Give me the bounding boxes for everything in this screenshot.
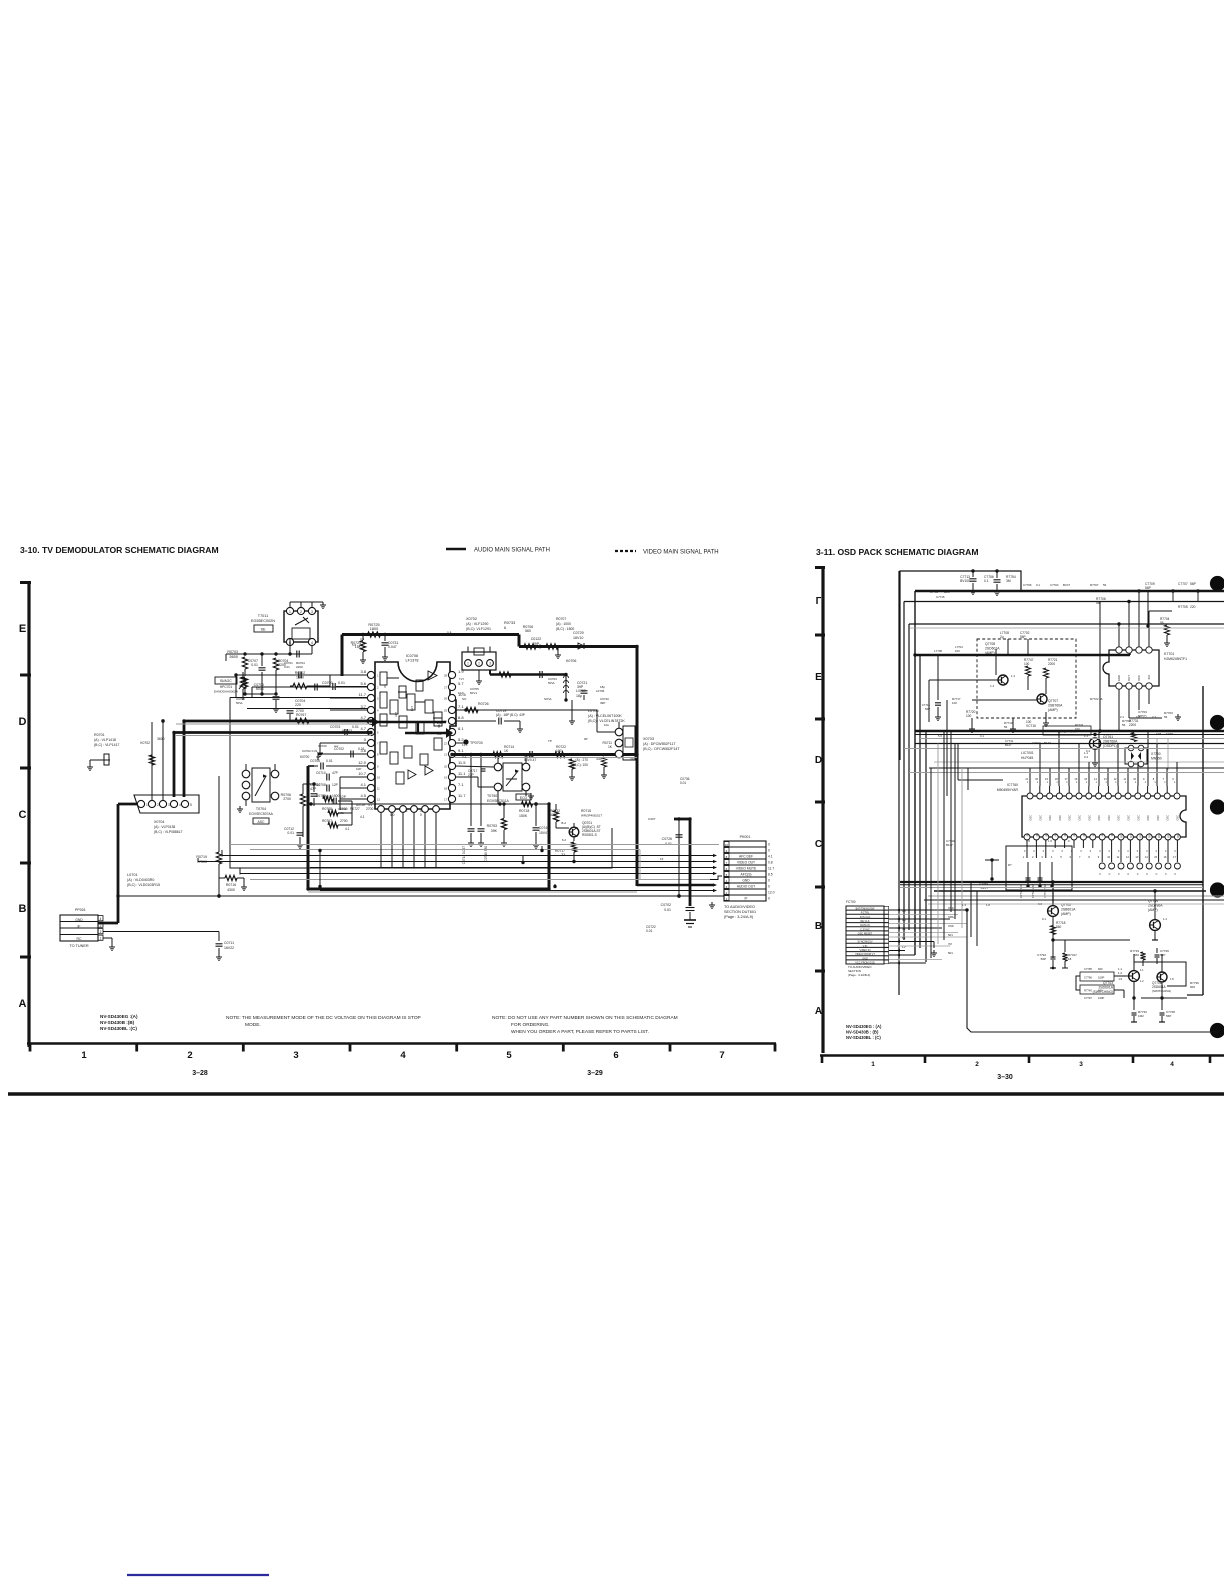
svg-text:4300: 4300: [227, 888, 235, 892]
svg-text:16V22: 16V22: [224, 946, 234, 950]
resistor R0704 2200: [273, 658, 288, 694]
svg-text:TP0703: TP0703: [470, 741, 483, 745]
right diagram border frame with zone letters: [815, 566, 825, 1053]
coil K0706: [564, 659, 577, 700]
svg-text:(OSDPL): (OSDPL): [1103, 744, 1117, 748]
svg-text:4.1: 4.1: [360, 782, 366, 787]
svg-text:HJM6245NTF1: HJM6245NTF1: [1164, 657, 1187, 661]
svg-text:R0715: R0715: [581, 809, 591, 813]
ceramic resonator X7750 MN350: [1125, 732, 1173, 770]
svg-text:5: 5: [190, 803, 192, 807]
svg-text:56: 56: [1122, 723, 1126, 727]
svg-text:100: 100: [966, 714, 972, 718]
svg-text:3: 3: [489, 662, 491, 666]
svg-text:12.0: 12.0: [768, 891, 775, 895]
input tuning connector X0704: [134, 795, 199, 834]
svg-text:1: 1: [1027, 781, 1029, 784]
svg-text:Q7707: Q7707: [1048, 699, 1058, 703]
svg-text:19: 19: [444, 776, 447, 780]
wire: dots on right buses: [913, 589, 1163, 999]
svg-text:56: 56: [1096, 601, 1100, 605]
svg-text:(A) : VLP1418: (A) : VLP1418: [94, 738, 116, 742]
IC7501 pin number digits: [377, 674, 447, 802]
wire: thick path X0702 to K0706: [490, 670, 566, 675]
svg-text:AFC DEF: AFC DEF: [739, 855, 753, 859]
svg-text:1: 1: [1115, 781, 1117, 784]
wire: top-left supply rail: [226, 638, 312, 661]
svg-text:3: 3: [377, 697, 379, 701]
svg-text:OSC: OSC: [1029, 815, 1033, 821]
svg-text:12.0: 12.0: [358, 760, 367, 765]
svg-text:50P: 50P: [925, 707, 930, 711]
svg-text:5R1: 5R1: [948, 951, 953, 955]
svg-text:RC: RC: [77, 937, 82, 941]
wire: bus junction dots: [161, 645, 691, 898]
junction label C7760 BV47: [979, 877, 994, 890]
transistor Q7705 2SD601A SWITCHING 2: [1152, 954, 1174, 1010]
svg-text:8.5: 8.5: [768, 873, 773, 877]
svg-text:3.8: 3.8: [360, 637, 365, 641]
svg-text:56P: 56P: [1145, 586, 1152, 590]
svg-text:8: 8: [1088, 855, 1090, 859]
svg-text:1: 1: [467, 662, 469, 666]
coil K0702 3600: [140, 719, 165, 800]
svg-text:3–28: 3–28: [192, 1070, 208, 1077]
svg-text:C0726: C0726: [662, 837, 672, 841]
svg-text:C: C: [1109, 873, 1111, 876]
wire: OSD lower bus lines: [929, 762, 1224, 768]
svg-text:B147: B147: [944, 590, 951, 594]
capacitor C0700 0.01: [322, 681, 368, 690]
svg-text:X0704: X0704: [154, 820, 164, 824]
svg-text:2.1: 2.1: [1120, 715, 1124, 719]
svg-text:C: C: [1137, 873, 1139, 876]
resistor R0701 VLP1418 with cap: [87, 733, 120, 770]
svg-text:T0704: T0704: [256, 807, 266, 811]
svg-text:SO: SO: [462, 697, 467, 701]
svg-text:R10: R10: [1120, 832, 1124, 837]
svg-text:3: 3: [1079, 1061, 1083, 1068]
right diagram scattered labels: [930, 590, 1084, 907]
svg-text:Г: Г: [816, 596, 822, 607]
resistor R0716 4300: [219, 875, 247, 892]
svg-text:C7707: C7707: [1178, 582, 1188, 586]
svg-text:A: A: [815, 1006, 822, 1017]
svg-text:TP: TP: [548, 739, 552, 743]
svg-text:2SB766A: 2SB766A: [1103, 740, 1118, 744]
svg-text:0: 0: [1146, 850, 1148, 853]
svg-text:0: 0: [1174, 850, 1176, 853]
svg-text:1.2: 1.2: [1118, 971, 1122, 975]
svg-text:OSC: OSC: [1058, 815, 1062, 821]
svg-text:0.01: 0.01: [646, 929, 653, 933]
svg-text:18V10: 18V10: [573, 636, 583, 640]
svg-text:K97S: K97S: [1166, 732, 1173, 736]
svg-text:1.4: 1.4: [990, 684, 994, 688]
svg-text:B147: B147: [1005, 743, 1012, 747]
svg-text:ECO: ECO: [520, 796, 528, 800]
svg-text:R0707: R0707: [556, 617, 566, 621]
svg-text:21: 21: [444, 753, 447, 757]
svg-text:2700: 2700: [340, 819, 348, 823]
svg-text:1.2: 1.2: [1140, 979, 1144, 983]
svg-text:5.7: 5.7: [458, 681, 464, 686]
svg-text:IC7760: IC7760: [1007, 783, 1018, 787]
svg-text:Q7708: Q7708: [985, 642, 995, 646]
svg-text:B: B: [19, 903, 27, 915]
wire: bold signal path through IC7501 interior: [372, 717, 453, 738]
svg-text:47P: 47P: [332, 771, 339, 775]
svg-text:0.067: 0.067: [648, 817, 656, 821]
wire: bottom area frame right diagram: [0, 0, 1, 1]
svg-text:160P: 160P: [1098, 976, 1104, 980]
svg-text:IF: IF: [745, 897, 748, 901]
note: to audio/video section: [709, 902, 756, 919]
svg-text:T7011: T7011: [258, 614, 268, 618]
svg-text:3: 3: [168, 803, 170, 807]
svg-text:R0727: R0727: [350, 807, 360, 811]
svg-text:5600: 5600: [230, 655, 238, 659]
svg-text:0.01: 0.01: [284, 665, 290, 669]
svg-text:VIDEO OUT: VIDEO OUT: [737, 861, 755, 865]
svg-text:3600: 3600: [157, 737, 165, 741]
capacitor C7713 BV100 on top rail: [960, 569, 976, 594]
svg-text:OSC: OSC: [1146, 815, 1150, 821]
svg-text:(A) : 270: (A) : 270: [575, 758, 588, 762]
svg-text:0.01: 0.01: [358, 747, 365, 751]
svg-text:0.01: 0.01: [326, 759, 333, 763]
svg-text:18μ: 18μ: [576, 694, 582, 698]
demodulator IC IC0706 thick top boundary: [342, 635, 637, 677]
svg-text:C0700: C0700: [322, 681, 333, 685]
svg-text:7: 7: [719, 1050, 724, 1061]
svg-text:PP001: PP001: [75, 908, 86, 912]
svg-text:R0716: R0716: [226, 883, 236, 887]
svg-text:R7705: R7705: [1178, 605, 1188, 609]
transformer T7011 EG55EC002N: [251, 602, 326, 646]
bottom separator rule: [8, 1092, 1224, 1095]
svg-text:17: 17: [1173, 855, 1176, 859]
svg-text:10.6: 10.6: [458, 691, 464, 695]
svg-text:3.7: 3.7: [360, 704, 366, 709]
svg-text:R12: R12: [1138, 832, 1142, 837]
wire: IC left pin feed lines from rail area: [317, 675, 368, 756]
svg-text:X7750: X7750: [1151, 752, 1161, 756]
svg-text:560: 560: [525, 629, 531, 633]
svg-text:4: 4: [311, 641, 313, 645]
note: DC voltage measurement: [226, 1015, 421, 1028]
svg-text:0: 0: [1080, 850, 1082, 853]
svg-text:2200: 2200: [1129, 723, 1136, 727]
svg-text:1800: 1800: [370, 627, 378, 631]
svg-text:0: 0: [1165, 850, 1167, 853]
svg-text:4: 4: [179, 803, 181, 807]
svg-text:3–29: 3–29: [587, 1070, 603, 1077]
svg-text:0: 0: [1024, 850, 1026, 853]
wire: thick right bus vertical: [636, 647, 639, 887]
note: part number warning: [492, 1015, 678, 1035]
wire: IC left pin stubs and parts field: [234, 672, 368, 698]
svg-text:HPC701: HPC701: [220, 685, 233, 689]
svg-text:20: 20: [444, 765, 447, 769]
svg-text:C: C: [815, 839, 822, 850]
svg-text:12P: 12P: [340, 795, 347, 799]
svg-text:100: 100: [1026, 720, 1032, 724]
svg-text:0.1: 0.1: [1042, 917, 1046, 921]
note: to audio/video section label right: [848, 965, 872, 977]
wire: thick lower boundary pair of OSD core: [900, 882, 1224, 900]
svg-text:7.1: 7.1: [462, 755, 467, 759]
svg-text:0.01: 0.01: [338, 681, 345, 685]
svg-text:6.2: 6.2: [562, 838, 567, 842]
resistor R0725 1800 on top rail: [368, 623, 381, 637]
svg-text:B147: B147: [1044, 741, 1051, 745]
svg-text:4.1: 4.1: [768, 855, 773, 859]
svg-text:2: 2: [157, 803, 159, 807]
svg-text:2700: 2700: [283, 797, 291, 801]
svg-text:R14: R14: [1157, 832, 1161, 837]
svg-text:SOVL: SOVL: [544, 697, 552, 701]
svg-text:1: 1: [1076, 781, 1078, 784]
svg-text:LIC7001: LIC7001: [1021, 751, 1034, 755]
wire: thick drop from X0704 pin1 to PP001: [98, 804, 137, 923]
svg-text:D: D: [815, 755, 822, 766]
svg-text:0: 0: [1090, 850, 1092, 853]
svg-text:C: C: [19, 809, 27, 821]
svg-text:VIDEO MUTE: VIDEO MUTE: [736, 867, 757, 871]
svg-text:NV-SD430B :(B): NV-SD430B :(B): [100, 1020, 135, 1025]
svg-text:4.1: 4.1: [345, 827, 350, 831]
svg-text:R11: R11: [1129, 832, 1133, 837]
svg-text:3-11. OSD PACK SCHEMATIC DIAGR: 3-11. OSD PACK SCHEMATIC DIAGRAM: [816, 547, 979, 557]
capacitor C0708 12P: [322, 795, 352, 805]
svg-text:Q7704: Q7704: [1148, 899, 1158, 903]
svg-text:10u: 10u: [604, 723, 609, 727]
svg-text:50V1: 50V1: [470, 691, 477, 695]
svg-text:NV-SD430BL :(C): NV-SD430BL :(C): [100, 1026, 137, 1031]
svg-text:R0726: R0726: [478, 702, 489, 706]
svg-text:0: 0: [1099, 850, 1101, 853]
svg-text:(A) : 1000: (A) : 1000: [556, 622, 571, 626]
svg-text:OSC: OSC: [1117, 815, 1121, 821]
wire: harness labels: [948, 906, 955, 955]
svg-text:11.1: 11.1: [462, 743, 468, 747]
svg-text:PK001: PK001: [740, 835, 751, 839]
svg-text:R0728: R0728: [356, 803, 365, 807]
svg-text:18: 18: [1068, 957, 1072, 961]
svg-text:R0703: R0703: [227, 650, 238, 654]
transistor Q7703 2SD601A SWITCHING: [1093, 954, 1145, 1010]
svg-text:1: 1: [81, 1050, 87, 1061]
svg-text:56: 56: [1103, 583, 1107, 587]
svg-text:OSC: OSC: [1087, 815, 1091, 821]
svg-text:1: 1: [100, 936, 102, 940]
svg-text:56P: 56P: [1160, 953, 1165, 957]
legend: audio main signal path: [446, 548, 550, 554]
wire: right diagram inner-left vertical bundle lower: [931, 731, 944, 958]
capacitor C7714 group left of dashed box: [922, 655, 941, 720]
capacitor C0715 330: [478, 755, 489, 862]
svg-text:R16: R16: [1176, 832, 1180, 837]
svg-text:AFC(S): AFC(S): [741, 873, 752, 877]
svg-text:1500: 1500: [332, 794, 340, 798]
svg-text:C0702 0.01: C0702 0.01: [302, 749, 318, 753]
svg-text:A: A: [19, 998, 27, 1010]
svg-text:5.6: 5.6: [360, 681, 366, 686]
resistor R0707b 2700: [322, 801, 352, 828]
svg-text:25: 25: [444, 709, 447, 713]
svg-text:1500: 1500: [296, 676, 304, 680]
svg-text:6: 6: [1070, 855, 1072, 859]
svg-text:2: 2: [975, 1061, 979, 1068]
svg-text:(A) : VLD0403R0: (A) : VLD0403R0: [127, 878, 154, 882]
svg-text:9: 9: [377, 765, 379, 769]
svg-text:5: 5: [506, 1050, 512, 1061]
svg-text:18p: 18p: [600, 685, 605, 689]
svg-text:10: 10: [377, 776, 380, 780]
wire: thick bottom return bus: [308, 755, 637, 890]
svg-text:220: 220: [295, 703, 301, 707]
capacitor C7702 label: [1020, 631, 1030, 655]
left diagram scattered value labels: [300, 631, 690, 861]
wire: IC7760 top pin feeds from buses: [1030, 731, 1177, 786]
svg-text:15V47: 15V47: [539, 831, 549, 835]
svg-text:0: 0: [1052, 850, 1054, 853]
svg-text:1: 1: [1047, 781, 1049, 784]
svg-text:C0710: C0710: [316, 771, 326, 775]
svg-text:OSC: OSC: [1156, 815, 1160, 821]
svg-text:4.7: 4.7: [360, 726, 366, 731]
svg-text:1.6: 1.6: [986, 903, 990, 907]
capacitor C7728 56P bottom: [1159, 1010, 1175, 1022]
svg-text:5.6: 5.6: [352, 643, 357, 647]
right diagram bottom ruler with column numbers: [820, 1056, 1224, 1069]
SAW filter X0702 VLF1290: [462, 617, 496, 670]
svg-text:1: 1: [1037, 781, 1039, 784]
wire: IC7760 bottom bus collector: [0, 0, 1, 1]
svg-text:600: 600: [1190, 985, 1195, 989]
svg-text:2: 2: [100, 930, 102, 934]
svg-text:11: 11: [1117, 855, 1120, 859]
svg-text:0: 0: [1068, 839, 1070, 843]
svg-text:R6: R6: [1082, 832, 1086, 836]
svg-text:47P: 47P: [310, 787, 317, 791]
resistor network box C7707 R7705: [1171, 582, 1199, 609]
resistor R0707 select 1000/1800: [546, 617, 574, 658]
svg-text:AFT: AFT: [394, 712, 398, 717]
IC7760 pin number ticks top: [1025, 777, 1174, 781]
resistor R7706 56 label: [1096, 597, 1106, 731]
svg-text:NV-SD430B : (B): NV-SD430B : (B): [846, 1030, 879, 1035]
svg-text:R7: R7: [1091, 832, 1095, 836]
IC7760 pin number ticks bottom: [1023, 855, 1177, 859]
svg-text:OSC: OSC: [1176, 815, 1180, 821]
coil L7708 2u label: [1000, 631, 1009, 655]
svg-text:50VL: 50VL: [548, 681, 555, 685]
svg-text:220: 220: [1190, 605, 1196, 609]
svg-text:3: 3: [293, 1050, 298, 1061]
coil L0707 18u: [564, 689, 585, 724]
svg-text:1: 1: [1023, 855, 1025, 859]
svg-text:K0706: K0706: [566, 659, 576, 663]
wire: C7760 junction drop: [985, 858, 999, 879]
resistor R0715 select label: [581, 809, 602, 818]
left diagram bottom ruler with column numbers: [27, 1044, 776, 1062]
svg-text:X0702: X0702: [466, 617, 477, 621]
svg-text:1M2: 1M2: [1138, 1014, 1144, 1018]
svg-text:2: 2: [377, 686, 379, 690]
svg-text:2200: 2200: [296, 665, 303, 669]
left diagram micro label texture: [236, 637, 639, 815]
svg-text:560: 560: [1056, 925, 1062, 929]
IC7501 bottom pin row: [378, 806, 440, 868]
svg-text:C0702: C0702: [661, 903, 671, 907]
svg-text:0.8: 0.8: [768, 861, 773, 865]
svg-text:1.3: 1.3: [962, 903, 966, 907]
svg-text:56P: 56P: [1166, 1014, 1171, 1018]
resistor R0726 and peripheral parts right of IC: [456, 702, 525, 732]
resistor R7704 56 right: [1160, 617, 1170, 646]
dashed option enclosure: [977, 639, 1076, 718]
svg-text:15: 15: [1154, 855, 1157, 859]
svg-text:OSC: OSC: [1097, 815, 1101, 821]
svg-text:SECTION DUT601: SECTION DUT601: [724, 910, 756, 914]
svg-text:1: 1: [1164, 781, 1166, 784]
svg-text:R0710: R0710: [578, 753, 588, 757]
svg-text:0: 0: [364, 737, 367, 742]
svg-text:1: 1: [1174, 781, 1176, 784]
IC K7701 HJM6245NTF1: [1103, 641, 1187, 696]
svg-text:0.8: 0.8: [316, 755, 321, 759]
wire: K7701 pin drops from buses: [1119, 591, 1172, 647]
wire: long AGC line y897: [116, 894, 724, 897]
note: model list right: [846, 1024, 882, 1040]
svg-text:OSD: OSD: [948, 924, 954, 928]
svg-text:1.9: 1.9: [1118, 977, 1122, 981]
svg-text:R7745: R7745: [1084, 989, 1092, 993]
svg-text:NV-SD430BL : (C): NV-SD430BL : (C): [846, 1035, 881, 1040]
svg-text:5.2: 5.2: [458, 737, 464, 742]
svg-text:0: 0: [1043, 850, 1045, 853]
svg-text:R?: R?: [1008, 863, 1012, 867]
svg-text:C: C: [1099, 873, 1101, 876]
svg-text:C7715: C7715: [936, 595, 945, 599]
svg-text:(B,C): VLF1291: (B,C): VLF1291: [466, 627, 491, 631]
svg-text:39P: 39P: [600, 701, 605, 705]
svg-text:7M: 7M: [948, 942, 952, 946]
svg-text:R0701: R0701: [94, 733, 105, 737]
svg-text:R0: R0: [1026, 832, 1030, 836]
svg-text:R0707: R0707: [322, 819, 332, 823]
wire: line from R0717 to audio out row: [521, 846, 556, 888]
svg-text:22: 22: [444, 742, 447, 746]
svg-text:5R1: 5R1: [948, 933, 953, 937]
svg-text:C: C: [1118, 873, 1120, 876]
resistor R0719 7500: [196, 776, 221, 896]
svg-text:R2: R2: [1044, 832, 1048, 836]
wire: K7701 bottom pin connections: [1119, 696, 1181, 731]
svg-text:K0702: K0702: [140, 741, 150, 745]
svg-text:AUDIO MAIN SIGNAL PATH: AUDIO MAIN SIGNAL PATH: [474, 548, 550, 554]
OSD outer enclosure top section: [899, 571, 1021, 995]
svg-text:(A) : DFCW552F11T: (A) : DFCW552F11T: [643, 742, 676, 746]
svg-text:17: 17: [444, 798, 447, 802]
svg-text:C7704: C7704: [1050, 583, 1059, 587]
resistor R7733 1M2 bottom: [1131, 1010, 1147, 1022]
svg-text:(Page : 3-24/B-4): (Page : 3-24/B-4): [848, 973, 870, 977]
transistor Q7704 2SD786A AMP: [1148, 891, 1167, 940]
svg-text:GND: GND: [742, 879, 750, 883]
